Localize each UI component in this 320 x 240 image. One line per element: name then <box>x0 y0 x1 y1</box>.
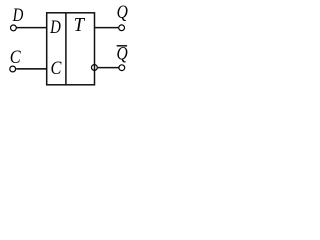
svg-text:C: C <box>51 57 62 78</box>
svg-text:C: C <box>10 46 21 67</box>
svg-text:Q: Q <box>117 2 129 23</box>
svg-text:D: D <box>12 4 24 25</box>
svg-text:T: T <box>74 14 86 36</box>
svg-text:D: D <box>49 16 61 37</box>
